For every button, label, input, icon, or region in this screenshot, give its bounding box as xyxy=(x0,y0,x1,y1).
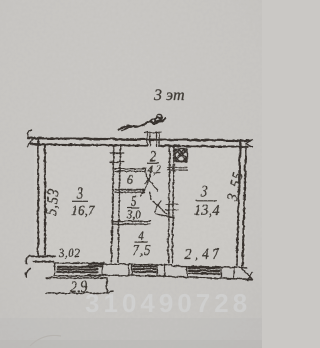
top wall right end tick xyxy=(246,139,253,146)
bottom wall middle: bottom line xyxy=(88,274,160,275)
door opening ticks in that wall xyxy=(110,153,124,162)
middle window hatch xyxy=(133,266,155,271)
entrance doorway jambs xyxy=(144,132,153,146)
room 5 fraction bar xyxy=(127,207,140,209)
room 3 right area 13.4 xyxy=(194,205,218,217)
room 5 area 3.0 xyxy=(127,210,140,220)
wall between left room and middle column xyxy=(111,145,120,262)
room 6 right edge + door leaf xyxy=(144,169,158,191)
room 5 bottom wall xyxy=(112,221,151,224)
top wall inner line xyxy=(30,144,247,147)
room 3 right number xyxy=(201,185,207,196)
room 5 number xyxy=(131,196,136,206)
bottom wall middle: top line xyxy=(101,263,171,266)
faint pencil mark bottom-left xyxy=(30,335,61,346)
room 2 number xyxy=(149,150,155,161)
balcony window block xyxy=(54,262,104,275)
top wall outer line xyxy=(27,138,250,141)
room 4 number xyxy=(138,231,143,240)
balcony outline xyxy=(46,277,113,293)
middle window jambs xyxy=(129,264,165,276)
room 4 area 7.5 xyxy=(133,245,150,257)
room 3 number xyxy=(76,187,82,198)
balcony dimension 2.9 xyxy=(70,281,87,294)
double line under vent shaft xyxy=(167,164,187,173)
handwritten room / dimension labels xyxy=(45,150,245,294)
dimension 2.47 bottom right xyxy=(184,249,219,261)
right wall xyxy=(236,141,245,266)
left room bottom wall segment xyxy=(31,256,55,261)
room 3 right fraction bar xyxy=(196,199,217,201)
junction blob left-bottom xyxy=(89,263,102,266)
room 6 number xyxy=(127,175,132,184)
room 3 fraction bar xyxy=(72,200,88,202)
room 6 box (wc) xyxy=(115,168,146,171)
vent shaft box with X xyxy=(175,149,187,162)
entrance swing arc into hall xyxy=(139,168,151,197)
bottom right diagonal tick xyxy=(240,267,252,280)
room 3 area 16.7 xyxy=(72,205,95,216)
room 4 fraction bar xyxy=(134,241,148,243)
room 5 right edge xyxy=(149,192,151,200)
dimension ticks left of wall xyxy=(25,255,30,277)
room 2 area 4.2 xyxy=(147,165,160,175)
left wall xyxy=(38,139,45,255)
watermark digits xyxy=(86,294,247,312)
dimension 5.53 left wall xyxy=(45,189,61,216)
wall between middle column and right room xyxy=(168,145,173,263)
lighter scanned interior of the plan xyxy=(34,140,246,270)
bottom wall right: top line xyxy=(172,265,248,267)
entrance door swing scribble xyxy=(118,117,166,130)
bottom scan shading xyxy=(0,318,262,348)
floor label 3 эт xyxy=(154,89,184,100)
top wall left end tick xyxy=(27,130,35,147)
room 2 fraction bar xyxy=(147,162,159,164)
bottom wall right: bottom line xyxy=(160,276,252,279)
dimension 3.02 bottom left xyxy=(58,248,79,258)
right window hatch xyxy=(189,267,220,273)
right window jambs xyxy=(187,266,234,278)
window hatch bar (balcony window) xyxy=(57,266,97,271)
door cluster hall/room4/room3 xyxy=(166,204,178,210)
dimension 3.55 right wall xyxy=(226,171,244,201)
